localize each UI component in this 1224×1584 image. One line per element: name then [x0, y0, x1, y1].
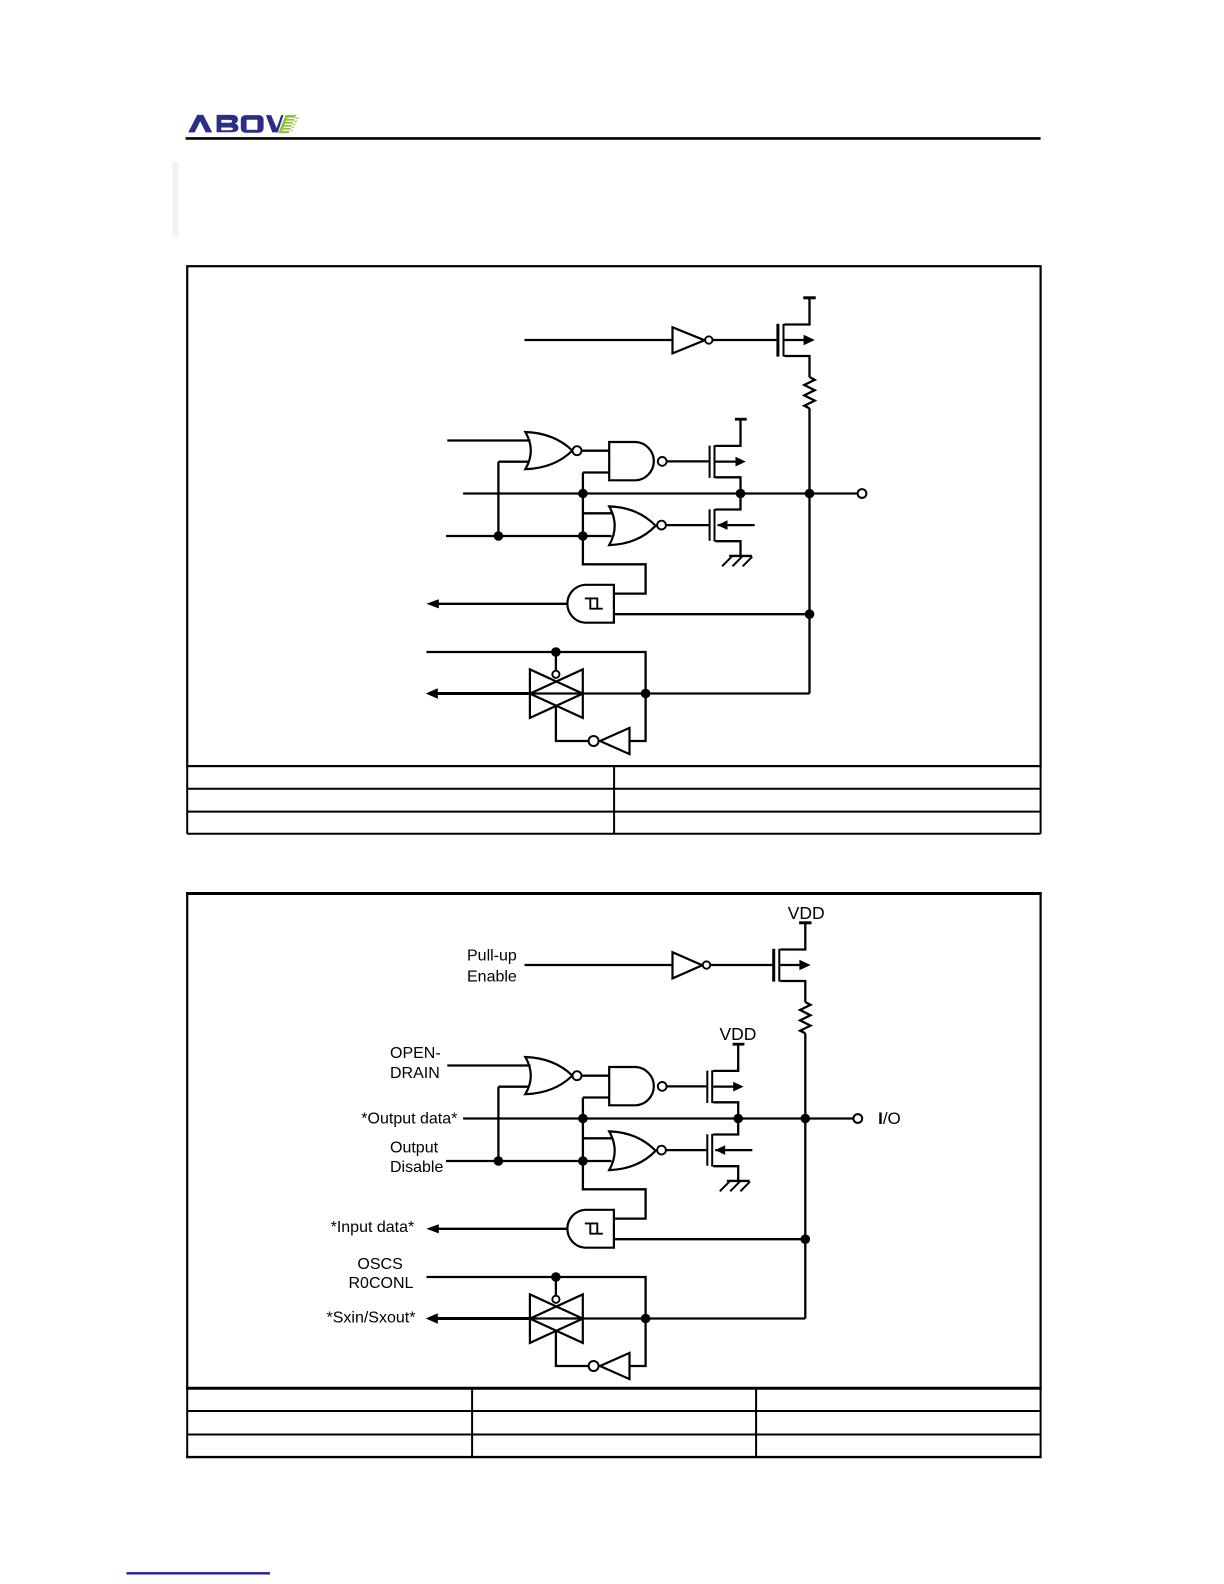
- junction output data / gate branch: [578, 489, 588, 499]
- junction output data / gate branch: [578, 1114, 588, 1124]
- TG control bubble: [552, 1296, 559, 1303]
- inverter U1 output bubble: [703, 961, 710, 968]
- wire open-drain input to NOR G1: [447, 439, 530, 441]
- wire U1 output to Q1 gate: [713, 339, 777, 341]
- schmitt trigger U2 body: [567, 585, 614, 623]
- resistor R1 pull-up: [804, 377, 814, 408]
- wire NOR G1 input B stub: [498, 1086, 529, 1088]
- wire NAND G2 input B stub: [583, 471, 609, 473]
- wire through transmission gate: [530, 692, 646, 694]
- svg-text:R0CONL: R0CONL: [349, 1275, 414, 1292]
- wire U1 output to Q1 gate: [710, 964, 772, 966]
- wire schmitt input from I/O rail: [614, 1238, 805, 1240]
- ground symbol: [727, 1180, 750, 1182]
- junction disable / NOR G1 branch: [494, 531, 504, 541]
- Q2 body arrowhead: [736, 457, 746, 467]
- wire NOR G3 to Q3 gate: [666, 1149, 706, 1151]
- wire rail to schmitt input: [804, 1119, 806, 1319]
- junction rail / schmitt input: [805, 609, 815, 619]
- wire TG control drop: [555, 1277, 557, 1296]
- wire TG to rail: [646, 1317, 806, 1319]
- wire Q1 body lead: [785, 339, 807, 341]
- transistor Q2 channel bar: [711, 1070, 713, 1103]
- wire NOR G1 input B stub: [498, 461, 529, 463]
- junction Q2/Q3 drain on output line: [733, 1114, 743, 1124]
- junction disable / schmitt branch: [578, 531, 588, 541]
- schmitt hysteresis mark: [585, 1223, 598, 1233]
- inverter U1 output bubble: [705, 336, 712, 343]
- inverter U3 output bubble: [589, 1361, 599, 1371]
- TG control bubble: [552, 671, 559, 678]
- wire Q1 source lead to resistor: [780, 981, 805, 1002]
- svg-text:I/O: I/O: [878, 1109, 901, 1128]
- VDD power bar (driver): [733, 1043, 745, 1046]
- wire Q1 drain lead to VDD riser: [785, 299, 810, 325]
- wire input data output: [438, 603, 567, 605]
- ABOV logo green stroke: [278, 115, 296, 133]
- wire Q3 drain lead to I/O node: [713, 1119, 738, 1135]
- NOR G1 output bubble: [573, 446, 582, 455]
- wire Q2 drain lead to I/O node: [716, 477, 741, 493]
- wire open-drain input to NOR G1: [447, 1064, 530, 1066]
- wire Q1 drain lead to VDD riser: [780, 924, 805, 950]
- schmitt trigger U2 body: [567, 1210, 614, 1248]
- wire output data line: [463, 492, 857, 494]
- Q3 body arrowhead: [717, 520, 727, 530]
- wire vertical output-disable to NOR G1: [497, 462, 499, 536]
- wire pull-up enable input: [525, 964, 673, 966]
- wire NOR G1 to NAND G2: [582, 1075, 610, 1077]
- wire output disable line: [446, 535, 612, 537]
- NAND G2 output bubble: [658, 1082, 667, 1091]
- wire disable to schmitt enable: [583, 536, 646, 594]
- wire OSCS control line: [427, 652, 646, 694]
- transistor Q1 pull-up PMOS gate bar: [776, 324, 779, 357]
- NOR gate G1: [525, 432, 572, 469]
- junction Sxin line / feedback inverter: [641, 1314, 651, 1324]
- NOR G1 output bubble: [573, 1071, 582, 1080]
- wire Q1 source lead to resistor: [785, 356, 810, 377]
- wire Sxin/Sxout bold segment: [437, 1317, 531, 1320]
- wire NAND G2 input B stub: [583, 1096, 609, 1098]
- table under top diagram: [187, 766, 1040, 834]
- svg-text:Disable: Disable: [390, 1159, 443, 1176]
- wire NOR G3 input A stub: [583, 1137, 612, 1139]
- junction rail / schmitt input: [801, 1234, 811, 1244]
- wire Q2 source lead to VDD riser: [713, 1045, 738, 1071]
- wire feedback inverter input: [630, 694, 646, 742]
- junction pull-up rail / output line: [805, 489, 815, 499]
- wire input data output: [438, 1228, 567, 1230]
- NOR gate G3: [609, 506, 655, 545]
- wire resistor R1 to I/O node: [808, 408, 810, 493]
- transmission gate TG1 left-pointing triangle: [530, 1294, 583, 1343]
- wire output disable line: [446, 1160, 612, 1162]
- inverter U1 (pull-up enable): [673, 327, 705, 353]
- svg-text:Output: Output: [390, 1139, 439, 1156]
- wire vertical output-data branch: [582, 473, 584, 537]
- transmission gate TG1 right-pointing triangle: [530, 1294, 583, 1343]
- wire Q3 drain lead to I/O node: [716, 494, 741, 510]
- header rule: [186, 137, 1041, 140]
- wire through transmission gate: [530, 1317, 646, 1319]
- inverter U3 output bubble: [589, 736, 599, 746]
- NAND gate G2: [609, 1067, 654, 1105]
- wire NOR G1 to NAND G2: [582, 450, 610, 452]
- feedback inverter U3: [600, 1353, 630, 1379]
- wire Q2 drain lead to I/O node: [713, 1102, 738, 1118]
- wire Q2 source lead to VDD riser: [716, 420, 741, 446]
- NOR gate G3: [609, 1131, 655, 1170]
- NOR gate G1: [525, 1057, 572, 1094]
- svg-text:Pull-up: Pull-up: [467, 948, 517, 965]
- transistor Q3 output NMOS gate bar: [706, 1134, 708, 1166]
- wire TG control drop: [555, 652, 557, 671]
- junction Q2/Q3 drain on output line: [736, 489, 746, 499]
- svg-text:*Input data*: *Input data*: [331, 1219, 415, 1236]
- schmitt hysteresis mark: [585, 598, 598, 608]
- junction OSCS / TG control: [551, 1272, 561, 1282]
- junction Sxin line / feedback inverter: [641, 689, 651, 699]
- wire Q3 source lead to ground: [713, 1166, 738, 1181]
- Sxin/Sxout arrowhead: [426, 688, 438, 699]
- input data arrowhead: [426, 599, 439, 608]
- wire U3 output to TG bottom control: [556, 705, 589, 741]
- wire rail to schmitt input: [808, 494, 810, 694]
- footer rule: [127, 1572, 271, 1574]
- svg-text:*Sxin/Sxout*: *Sxin/Sxout*: [327, 1310, 416, 1327]
- table under bottom diagram: [186, 1388, 1042, 1457]
- inverter U1 (pull-up enable): [673, 952, 703, 978]
- svg-text:VDD: VDD: [720, 1024, 757, 1044]
- wire TG to rail: [646, 692, 810, 694]
- wire Q3 body lead: [718, 524, 755, 526]
- VDD power bar (driver): [735, 418, 747, 421]
- NOR G3 output bubble: [657, 1146, 666, 1155]
- wire Q2 body lead: [713, 1085, 735, 1087]
- ground symbol: [729, 555, 752, 557]
- svg-text:Enable: Enable: [467, 968, 517, 985]
- input data arrowhead: [426, 1224, 439, 1233]
- NAND gate G2: [609, 442, 654, 480]
- wire pull-up enable input: [525, 339, 673, 341]
- feedback inverter U3: [600, 728, 630, 754]
- wire U3 output to TG bottom control: [556, 1330, 589, 1366]
- wire Q3 body lead: [715, 1149, 752, 1151]
- transistor Q3 channel bar: [711, 1134, 713, 1167]
- transistor Q1 pull-up PMOS gate bar: [772, 949, 775, 982]
- transistor Q3 output NMOS gate bar: [709, 509, 711, 541]
- Q2 body arrowhead: [733, 1082, 743, 1092]
- transistor Q2 output PMOS gate bar: [709, 446, 711, 478]
- I/O pad terminal: [853, 1114, 862, 1123]
- svg-text:VDD: VDD: [788, 903, 825, 923]
- svg-text:OPEN-: OPEN-: [390, 1045, 441, 1062]
- transistor Q2 channel bar: [714, 445, 716, 478]
- wire Sxin/Sxout bold segment: [437, 692, 531, 695]
- junction pull-up rail / output line: [801, 1114, 811, 1124]
- svg-text:DRAIN: DRAIN: [390, 1065, 440, 1082]
- wire OSCS control line: [427, 1277, 646, 1319]
- ABOV logo letter V: [266, 115, 284, 132]
- transistor Q1 channel bar: [778, 949, 780, 982]
- wire vertical output-data branch: [582, 1098, 584, 1162]
- wire NOR G3 input A stub: [583, 512, 612, 514]
- wire feedback inverter input: [630, 1319, 646, 1367]
- margin revision mark: [173, 162, 179, 237]
- junction OSCS / TG control: [551, 647, 561, 657]
- transistor Q3 channel bar: [714, 509, 716, 542]
- figure frame (top diagram): [187, 266, 1040, 766]
- wire NAND G2 to Q2 gate: [667, 1085, 707, 1087]
- transmission gate TG1 right-pointing triangle: [530, 669, 583, 718]
- Q1 body arrowhead: [804, 335, 815, 346]
- Q3 body arrowhead: [715, 1145, 725, 1155]
- wire schmitt input from I/O rail: [614, 613, 810, 615]
- wire vertical output-disable to NOR G1: [497, 1087, 499, 1161]
- I/O pad terminal: [858, 489, 867, 498]
- Q1 body arrowhead: [799, 960, 810, 971]
- wire NOR G3 to Q3 gate: [666, 524, 709, 526]
- resistor R1 pull-up: [800, 1002, 810, 1033]
- junction disable / schmitt branch: [578, 1156, 588, 1166]
- transistor Q2 output PMOS gate bar: [706, 1071, 708, 1103]
- NOR G3 output bubble: [657, 521, 666, 530]
- junction disable / NOR G1 branch: [494, 1156, 504, 1166]
- wire NAND G2 to Q2 gate: [667, 460, 709, 462]
- ABOV logo letter O: [241, 115, 264, 133]
- wire resistor R1 to I/O node: [804, 1033, 806, 1118]
- NAND G2 output bubble: [658, 457, 667, 466]
- transistor Q1 channel bar: [783, 324, 785, 357]
- wire Q2 body lead: [716, 460, 738, 462]
- wire Q3 source lead to ground: [716, 541, 741, 556]
- wire disable to schmitt enable: [583, 1161, 646, 1219]
- ABOV logo letter B: [217, 115, 239, 132]
- ABOV logo letter A: [188, 115, 212, 132]
- VDD power bar (pull-up): [803, 296, 815, 299]
- wire output data line: [463, 1117, 853, 1119]
- VDD power bar (pull-up): [799, 921, 811, 924]
- svg-text:OSCS: OSCS: [357, 1256, 402, 1273]
- svg-text:*Output data*: *Output data*: [361, 1110, 457, 1127]
- transmission gate TG1 left-pointing triangle: [530, 669, 583, 718]
- wire Q1 body lead: [780, 964, 802, 966]
- Sxin/Sxout arrowhead: [426, 1313, 438, 1324]
- figure frame (bottom diagram): [187, 894, 1040, 1389]
